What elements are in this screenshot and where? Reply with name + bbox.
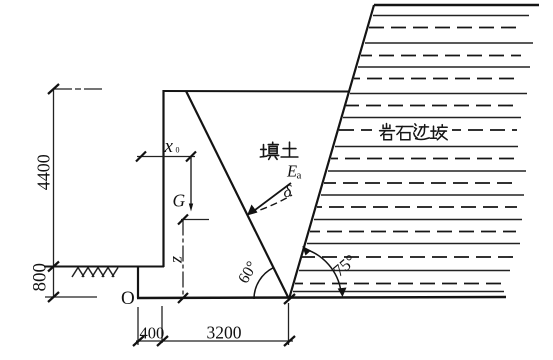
bottom extension line	[45, 296, 97, 298]
z extension line	[181, 219, 209, 221]
tick 400 left	[133, 336, 144, 346]
svg-text:δ: δ	[284, 182, 293, 201]
tick top	[48, 84, 59, 94]
rock hatch solid lines	[293, 16, 533, 292]
75deg arc	[304, 249, 341, 292]
ground line left of wall	[44, 266, 164, 268]
bottom extension line a	[137, 307, 139, 345]
svg-text:G: G	[173, 191, 186, 211]
tick bottom	[48, 292, 59, 302]
label bian (side) char3	[414, 124, 430, 140]
60deg arc	[254, 268, 273, 299]
svg-text:z: z	[166, 256, 186, 264]
x0 dimension line	[137, 156, 195, 158]
tick z bottom	[178, 293, 188, 303]
delta dashed normal line	[250, 195, 292, 214]
G force line	[190, 157, 192, 208]
rupture plane line 60deg	[186, 91, 289, 299]
Ea force vector	[251, 183, 291, 213]
rock hatch dashed lines	[295, 28, 521, 284]
tick 3200 right	[284, 336, 295, 346]
svg-text:400: 400	[140, 324, 165, 343]
Ea arrowhead	[247, 205, 258, 216]
svg-text:800: 800	[30, 263, 51, 292]
svg-text:E: E	[286, 162, 297, 181]
wall top surface line	[163, 90, 350, 93]
bottom extension line c	[288, 303, 290, 345]
bottom extension line b	[161, 306, 163, 343]
rock slope face line 75deg	[289, 5, 374, 299]
z dimension line	[182, 220, 184, 299]
foundation front face	[137, 266, 139, 299]
svg-text:4400: 4400	[33, 154, 53, 190]
top extension line	[54, 88, 105, 90]
75deg arrow top	[302, 246, 311, 256]
label yan (rock) char1	[380, 123, 395, 139]
tick x0 right	[186, 152, 196, 162]
svg-text:O: O	[121, 288, 135, 309]
G arrowhead	[189, 204, 193, 212]
75deg arrow bottom	[338, 288, 347, 298]
label tu (soil) char2	[281, 142, 298, 157]
bottom dimension line	[136, 340, 293, 342]
label tian (fill) char1	[260, 142, 278, 159]
tick ground	[48, 262, 59, 272]
svg-text:3200: 3200	[207, 323, 242, 343]
tick at slope toe	[284, 294, 295, 304]
tick z top	[178, 215, 188, 225]
svg-text:x: x	[164, 136, 174, 157]
dimension line left (4400/800)	[53, 89, 55, 297]
soil hatch marks	[72, 268, 118, 278]
wall vertical face	[162, 90, 164, 267]
svg-text:a: a	[297, 170, 302, 182]
baseline	[137, 297, 506, 298]
rock slope top line	[374, 4, 539, 6]
label shi (stone) char2	[396, 127, 413, 140]
label po (slope) char4	[430, 125, 447, 140]
svg-text:0: 0	[176, 146, 180, 155]
tick x0 left	[136, 152, 146, 162]
tick 400 right	[157, 336, 168, 346]
